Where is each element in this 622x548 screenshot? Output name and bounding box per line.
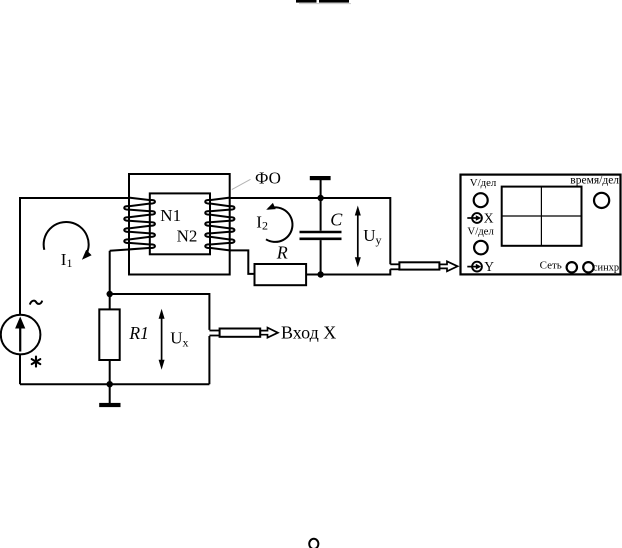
wire: left coil exit down: [109, 251, 111, 294]
svg-text:N2: N2: [177, 227, 198, 246]
screen crosshair horizontal: [502, 215, 582, 217]
wire: source bottom to rail: [19, 354, 21, 384]
leader line to FO label: [232, 179, 251, 189]
node: bottom rail junction: [107, 381, 113, 387]
cropped letter o bottom: [309, 539, 318, 548]
winding N1 (left coil): [110, 198, 155, 251]
node: junction left (top of R1): [107, 291, 113, 297]
oscilloscope panel: [461, 175, 621, 275]
svg-text:V/дел: V/дел: [470, 177, 497, 189]
Ux measuring arrow: [161, 316, 163, 364]
svg-text:Uу: Uу: [363, 226, 381, 247]
input X connector: [472, 213, 482, 223]
label * (marker): [32, 357, 41, 367]
wire: top rail right segment: [230, 198, 391, 264]
knob vertical gain X: [474, 193, 488, 207]
svg-text:ФО: ФО: [255, 169, 281, 188]
cropped text bar top right: [319, 0, 349, 3]
node: rail / capacitor junction: [317, 195, 323, 201]
knob vertical gain Y: [474, 241, 488, 255]
indicator lamp sinhr: [583, 262, 593, 272]
cropped text bar top left: [296, 0, 317, 3]
core (inner box): [150, 193, 210, 254]
resistor R: [255, 264, 307, 285]
svg-text:X: X: [484, 210, 494, 225]
svg-text:N1: N1: [160, 206, 181, 225]
svg-text:Uх: Uх: [170, 329, 188, 350]
svg-text:Сеть: Сеть: [540, 259, 562, 271]
svg-text:I2: I2: [256, 212, 268, 232]
wire: node to Uy right branch bottom rail: [321, 269, 391, 274]
ground (top): [310, 176, 331, 180]
svg-text:V/дел: V/дел: [467, 226, 494, 238]
connector to oscilloscope Y: [390, 263, 399, 265]
box FO (phase shifter outer box): [129, 174, 230, 275]
wire: Ux box top: [110, 294, 210, 330]
source V1 (AC current source circle): [1, 315, 41, 355]
loop arrow I2: [266, 207, 292, 242]
svg-text:время/дел: время/дел: [570, 174, 619, 186]
resistor R1: [109, 294, 111, 309]
screen crosshair vertical: [540, 187, 542, 246]
wire: right coil exit to R: [230, 250, 255, 274]
loop arrow I1: [44, 222, 89, 258]
knob time base: [594, 193, 609, 208]
arrow into oscilloscope: [439, 261, 457, 271]
arrow to Vhod X: [260, 328, 278, 338]
faint underline top: [299, 3, 351, 5]
winding N2 (right coil): [205, 198, 234, 251]
wire: bottom rail: [20, 383, 209, 385]
arrow inside source: [19, 323, 21, 352]
svg-text:I1: I1: [61, 250, 73, 270]
node: bottom capacitor junction: [317, 271, 323, 277]
svg-text:Y: Y: [484, 259, 494, 274]
label ~ (AC): [30, 301, 42, 305]
svg-text:Вход X: Вход X: [281, 323, 336, 343]
oscilloscope screen: [502, 187, 582, 246]
svg-text:R: R: [276, 242, 288, 262]
indicator lamp Set': [567, 262, 577, 272]
svg-text:R1: R1: [128, 323, 148, 343]
ground (bottom): [109, 384, 111, 403]
connector to input X: [209, 330, 219, 332]
capacitor C: [320, 198, 322, 231]
wire: Ux box right lower part: [208, 336, 210, 384]
input Y connector: [472, 262, 482, 272]
svg-text:синхр: синхр: [593, 263, 619, 274]
wire: R right to node: [306, 274, 321, 276]
svg-text:C: C: [330, 210, 343, 230]
Uy measuring arrow: [357, 213, 359, 261]
wire: top rail left segment: [20, 198, 129, 315]
